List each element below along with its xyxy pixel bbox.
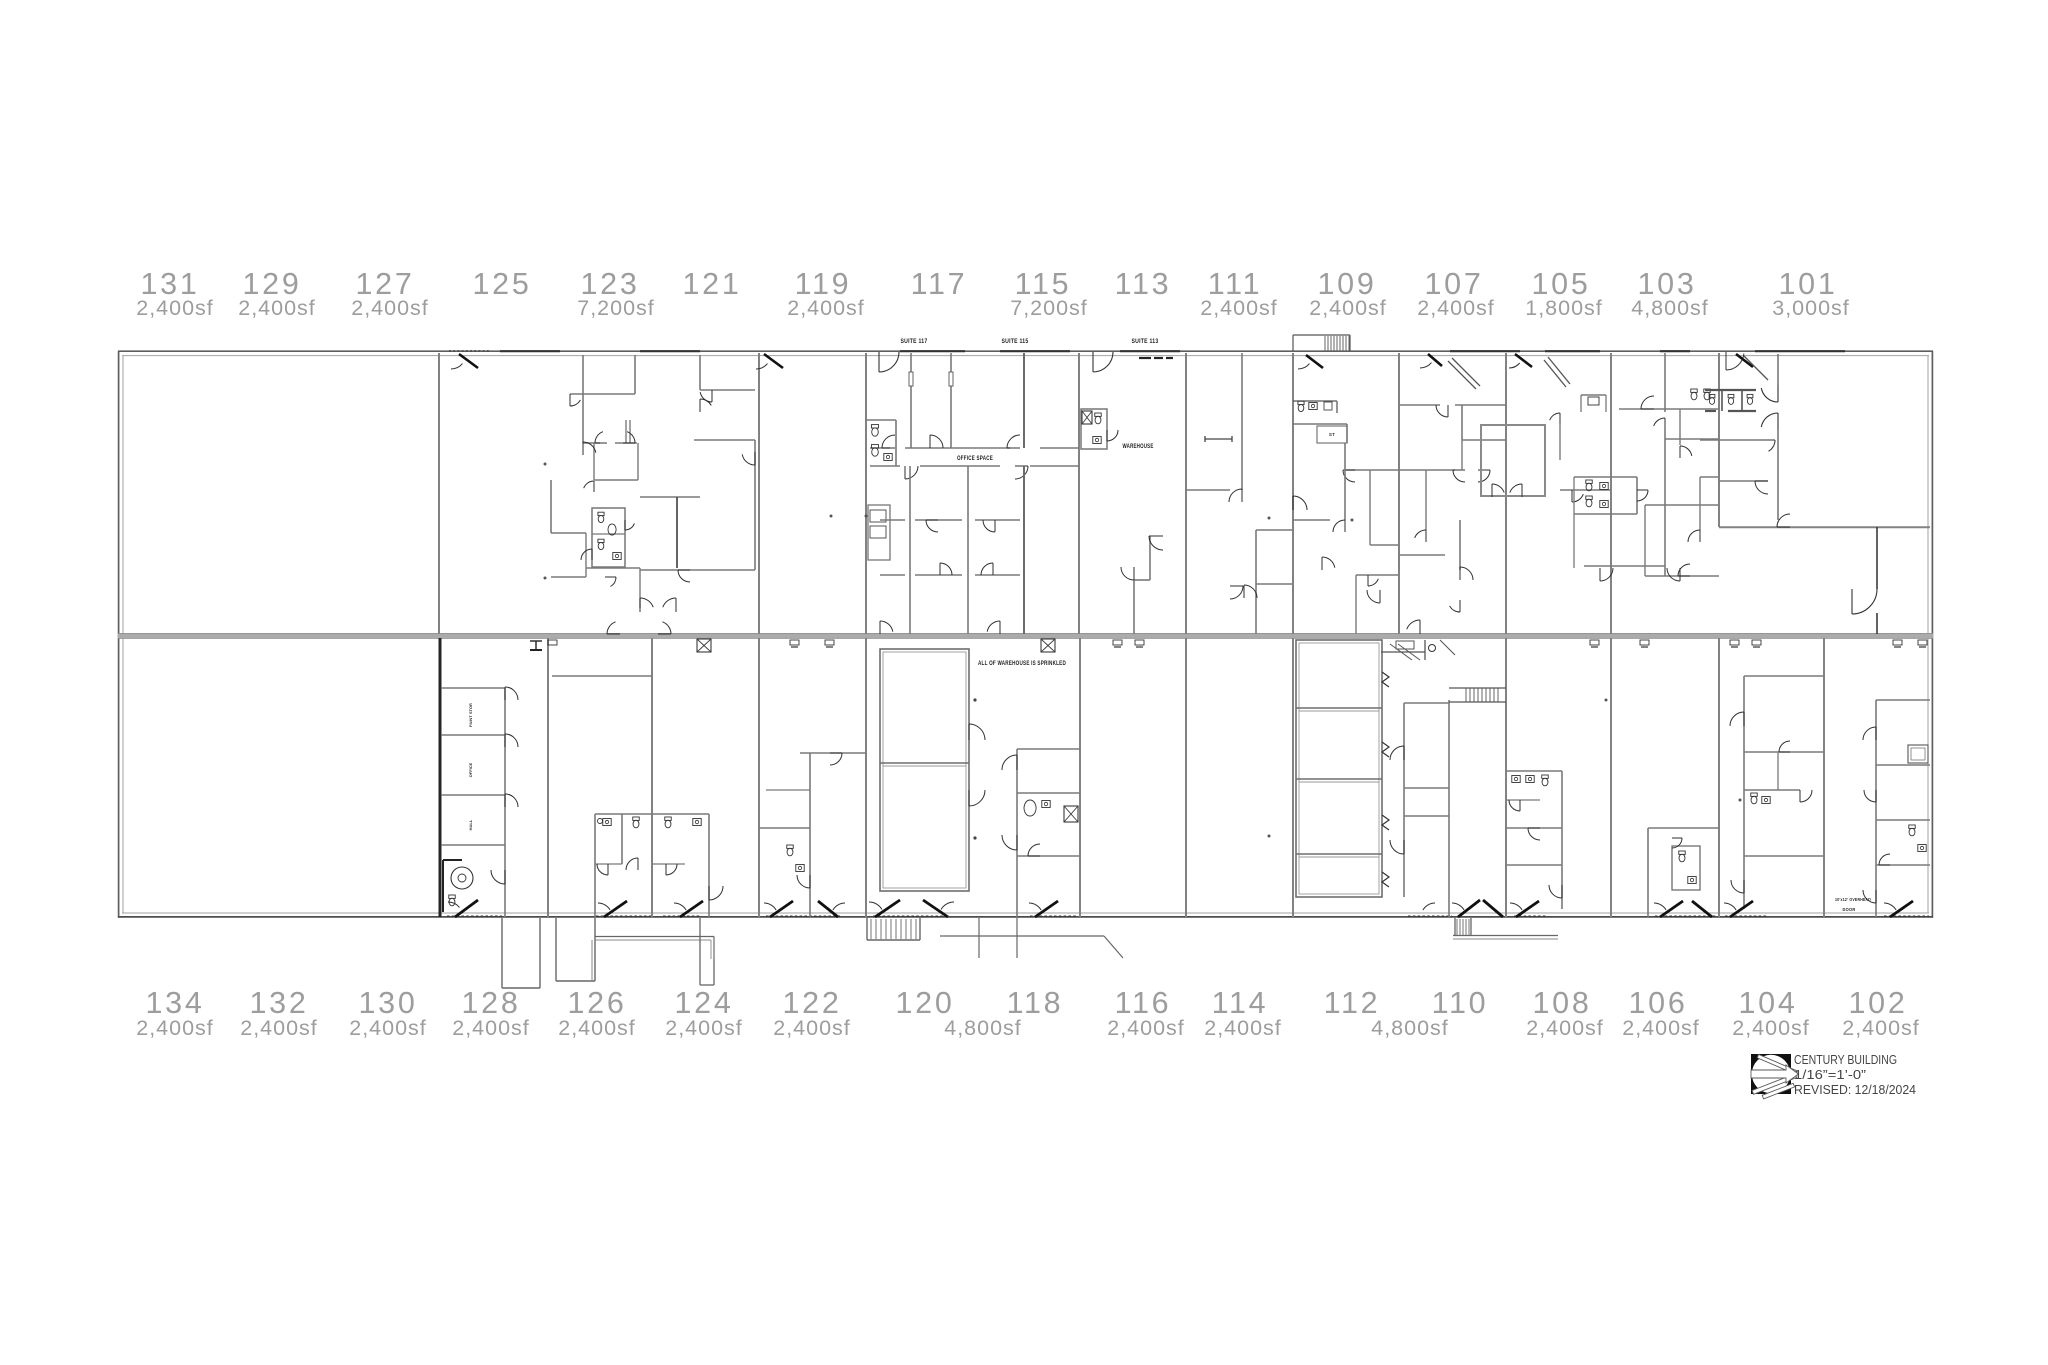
svg-text:108: 108 — [1533, 986, 1592, 1020]
svg-text:4,800sf: 4,800sf — [1371, 1016, 1449, 1040]
suite 105 interior — [1515, 354, 1532, 367]
storefront glazing bottom wall — [447, 915, 502, 917]
suite 102 interior — [1875, 700, 1877, 917]
svg-text:110: 110 — [1432, 986, 1489, 1020]
demising wall bottom x=652 — [651, 638, 653, 917]
svg-text:106: 106 — [1629, 986, 1688, 1020]
demising wall top x=866 — [865, 353, 867, 634]
svg-text:1,800sf: 1,800sf — [1525, 296, 1603, 320]
suite 118 rooms — [1016, 749, 1018, 917]
entry door suite101 — [1726, 354, 1744, 370]
svg-text:4,800sf: 4,800sf — [1631, 296, 1709, 320]
walkway below 118 — [940, 935, 1104, 937]
svg-text:2,400sf: 2,400sf — [665, 1016, 743, 1040]
svg-text:113: 113 — [1115, 267, 1172, 301]
svg-text:125: 125 — [473, 267, 532, 301]
demising wall top x=1293 — [1292, 353, 1294, 634]
demising wall bottom x=1186 — [1185, 638, 1187, 917]
demising wall bottom x=548 — [547, 638, 549, 917]
suite 123 interior rooms — [582, 355, 584, 443]
warehouse door note — [1139, 357, 1151, 359]
svg-text:OFFICE: OFFICE — [468, 762, 473, 777]
demising wall bottom x=440 (black) — [439, 638, 442, 917]
svg-text:2,400sf: 2,400sf — [1200, 296, 1278, 320]
demising wall top x=1506 — [1505, 353, 1507, 634]
demising wall bottom x=759 — [758, 638, 760, 917]
svg-text:120: 120 — [896, 986, 955, 1020]
svg-text:ST: ST — [1329, 432, 1335, 437]
svg-text:2,400sf: 2,400sf — [787, 296, 865, 320]
demising wall top x=1186 — [1185, 353, 1187, 634]
suite 101 interior wall y=527 — [1719, 526, 1930, 528]
svg-text:124: 124 — [675, 986, 734, 1020]
demising wall top x=1611 — [1610, 353, 1612, 634]
svg-text:7,200sf: 7,200sf — [577, 296, 655, 320]
svg-text:4,800sf: 4,800sf — [944, 1016, 1022, 1040]
svg-text:CENTURY BUILDING: CENTURY BUILDING — [1794, 1053, 1897, 1067]
svg-text:2,400sf: 2,400sf — [558, 1016, 636, 1040]
electrical panel on mid wall (124) — [697, 639, 711, 652]
demising wall top x=759 — [758, 353, 760, 634]
suite 109 interior — [1293, 400, 1337, 402]
door stop dots — [544, 463, 547, 466]
mid wall electrical symbols — [530, 640, 542, 642]
demising wall top x=439 — [438, 353, 440, 634]
door suite101 lower — [1852, 589, 1877, 614]
svg-text:2,400sf: 2,400sf — [1107, 1016, 1185, 1040]
suite 124 interior — [652, 813, 709, 815]
suite 108 interior — [1506, 770, 1562, 772]
svg-text:2,400sf: 2,400sf — [238, 296, 316, 320]
demising wall bottom x=1824 — [1823, 638, 1825, 917]
middle corridor wall — [118, 634, 1933, 639]
svg-text:2,400sf: 2,400sf — [1842, 1016, 1920, 1040]
svg-text:2,400sf: 2,400sf — [136, 296, 214, 320]
demising wall top x=1719 partial — [1718, 353, 1720, 527]
svg-text:134: 134 — [146, 986, 205, 1020]
svg-text:REVISED: 12/18/2024: REVISED: 12/18/2024 — [1794, 1083, 1916, 1097]
svg-text:WAREHOUSE: WAREHOUSE — [1123, 443, 1154, 450]
svg-text:130: 130 — [359, 986, 418, 1020]
svg-text:2,400sf: 2,400sf — [136, 1016, 214, 1040]
demising wall bottom x=1080 — [1079, 638, 1081, 917]
suite 101/102 wall x=1877 — [1876, 527, 1878, 589]
svg-text:SUITE 117: SUITE 117 — [901, 338, 928, 345]
svg-text:OFFICE SPACE: OFFICE SPACE — [957, 455, 993, 462]
demising wall top x=1399 — [1398, 353, 1400, 634]
entry door suite123 — [459, 354, 478, 368]
demising wall bottom x=1293 — [1292, 638, 1294, 917]
svg-text:2,400sf: 2,400sf — [1732, 1016, 1810, 1040]
svg-text:2,400sf: 2,400sf — [773, 1016, 851, 1040]
svg-text:SUITE 113: SUITE 113 — [1132, 338, 1159, 345]
suite 115 office partitions — [910, 353, 912, 372]
svg-text:2,400sf: 2,400sf — [1526, 1016, 1604, 1040]
electrical panel (120) — [1041, 639, 1055, 652]
svg-text:104: 104 — [1739, 986, 1798, 1020]
stoop below 110 — [1454, 918, 1456, 936]
stair stoop below 120 — [866, 918, 868, 940]
entry door suite113 — [1093, 352, 1113, 372]
small roof access note — [1390, 644, 1412, 660]
demising wall bottom x=1719 — [1718, 638, 1720, 917]
svg-text:ALL OF WAREHOUSE IS SPRINKLED: ALL OF WAREHOUSE IS SPRINKLED — [978, 660, 1066, 667]
svg-text:118: 118 — [1007, 986, 1064, 1020]
demising wall bottom x=866 — [865, 638, 867, 917]
building right wall — [1931, 351, 1933, 918]
svg-text:PAINT STOR: PAINT STOR — [468, 703, 473, 727]
entry door suite121 — [764, 354, 783, 368]
svg-text:2,400sf: 2,400sf — [452, 1016, 530, 1040]
suite 107 interior — [1399, 404, 1440, 406]
demising wall bottom x=1611 — [1610, 638, 1612, 917]
svg-text:114: 114 — [1212, 986, 1269, 1020]
building left wall — [118, 351, 120, 918]
suite 101 interior — [1777, 354, 1779, 385]
suite 104 interior — [1743, 676, 1745, 909]
suite 113 warehouse walls — [1081, 409, 1107, 449]
svg-text:2,400sf: 2,400sf — [1309, 296, 1387, 320]
svg-text:102: 102 — [1849, 986, 1908, 1020]
stoop below 128 — [501, 918, 503, 988]
svg-text:3,000sf: 3,000sf — [1772, 296, 1850, 320]
suite 111 interior — [1241, 353, 1243, 490]
suite 112/110 interior — [1296, 640, 1382, 897]
walkway below 124 — [595, 936, 714, 938]
stoop below 124 — [699, 918, 701, 985]
svg-text:1/16”=1’-0”: 1/16”=1’-0” — [1794, 1068, 1866, 1082]
building bottom wall — [118, 916, 1933, 918]
svg-text:122: 122 — [783, 986, 842, 1020]
svg-text:2,400sf: 2,400sf — [1417, 296, 1495, 320]
entry door suite117 — [879, 352, 899, 372]
room straddling 1506 wall — [1481, 425, 1545, 496]
svg-text:2,400sf: 2,400sf — [351, 296, 429, 320]
svg-text:10’x12’ OVERHEAD: 10’x12’ OVERHEAD — [1835, 897, 1871, 903]
suite 120 warehouse box — [880, 649, 969, 891]
title block logo — [1751, 1054, 1791, 1094]
svg-text:2,400sf: 2,400sf — [1622, 1016, 1700, 1040]
storefront glazing top — [500, 350, 560, 352]
suite 126 interior — [552, 675, 652, 677]
svg-text:HALL: HALL — [468, 819, 473, 830]
svg-text:128: 128 — [462, 986, 521, 1020]
svg-text:2,400sf: 2,400sf — [349, 1016, 427, 1040]
svg-text:112: 112 — [1324, 986, 1381, 1020]
svg-text:121: 121 — [683, 267, 742, 301]
suite 106 interior — [1647, 828, 1649, 917]
svg-text:2,400sf: 2,400sf — [240, 1016, 318, 1040]
svg-text:SUITE 115: SUITE 115 — [1002, 338, 1029, 345]
svg-text:126: 126 — [568, 986, 627, 1020]
entry door suite107 — [1428, 354, 1442, 366]
stair bump-out above top wall — [1293, 334, 1350, 336]
svg-text:2,400sf: 2,400sf — [1204, 1016, 1282, 1040]
demising wall bottom x=1506 — [1505, 638, 1507, 917]
svg-text:DOOR: DOOR — [1843, 907, 1856, 913]
stoop below 126 — [555, 918, 557, 981]
svg-text:7,200sf: 7,200sf — [1010, 296, 1088, 320]
demising wall top x=1079 — [1078, 353, 1080, 634]
svg-text:117: 117 — [911, 267, 968, 301]
suite 128 interior — [504, 688, 506, 917]
building outer top wall — [118, 350, 1933, 352]
svg-text:116: 116 — [1115, 986, 1172, 1020]
suite 122 interior — [800, 752, 866, 754]
svg-text:132: 132 — [250, 986, 309, 1020]
suite 103 interior — [1664, 353, 1666, 412]
entry door suite109 — [1306, 355, 1323, 368]
